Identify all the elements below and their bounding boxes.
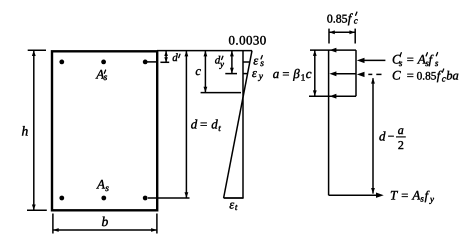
svg-text:A: A xyxy=(96,177,105,192)
stress figure left vertical line xyxy=(328,50,330,195)
svg-text:d: d xyxy=(379,129,386,144)
rebar dots bottom row xyxy=(59,196,147,201)
force arrow C's xyxy=(357,58,386,63)
label T = As fy xyxy=(390,187,434,204)
dimension h xyxy=(27,50,47,210)
svg-text:c: c xyxy=(195,64,201,78)
label eps_y xyxy=(252,66,264,82)
svg-text:0.85: 0.85 xyxy=(327,12,348,26)
svg-text:t: t xyxy=(218,123,221,133)
label a = beta1c xyxy=(273,66,312,84)
beam outline xyxy=(52,51,157,210)
svg-text:=: = xyxy=(407,69,414,83)
label 0.85f'c xyxy=(327,11,358,26)
strain tick eps's level xyxy=(243,61,250,63)
dimension d'y xyxy=(225,51,237,74)
stress block width dimension 0.85fc xyxy=(329,29,355,44)
label d' xyxy=(172,52,180,64)
svg-text:d: d xyxy=(191,116,198,131)
svg-text:A: A xyxy=(411,187,420,202)
svg-text:s: s xyxy=(105,184,109,194)
strain bottom tick xyxy=(224,197,244,199)
stress block middle arrow xyxy=(329,71,356,76)
label C = 0.85f'c ba xyxy=(392,67,459,83)
svg-text:y: y xyxy=(429,194,434,204)
top reference line to strain diagram xyxy=(157,50,252,52)
svg-text:c: c xyxy=(442,74,446,84)
svg-text:ε: ε xyxy=(252,66,257,80)
dimension c xyxy=(201,51,241,93)
svg-text:f: f xyxy=(425,188,430,202)
svg-text:=: = xyxy=(401,189,408,203)
dimension d' xyxy=(160,51,169,63)
dimension b xyxy=(53,214,157,234)
svg-text:t: t xyxy=(235,202,238,212)
strain diagram slanted line xyxy=(224,51,252,198)
svg-text:y: y xyxy=(258,72,264,82)
label A's xyxy=(95,67,107,84)
label eps's xyxy=(253,53,264,69)
svg-text:f: f xyxy=(429,53,434,67)
label d = dt xyxy=(191,116,222,133)
force arrow T xyxy=(329,193,384,198)
strain tick eps_y level xyxy=(243,73,248,75)
svg-text:c: c xyxy=(354,15,358,25)
label d - a/2 xyxy=(379,123,406,152)
force arrow C dashed xyxy=(357,72,382,77)
svg-text:h: h xyxy=(22,124,29,139)
dimension d = dt xyxy=(148,51,190,198)
svg-text:β: β xyxy=(292,66,300,81)
svg-text:c: c xyxy=(306,66,312,81)
svg-text:d: d xyxy=(211,116,218,131)
svg-text:b: b xyxy=(102,214,109,229)
svg-text:0.85: 0.85 xyxy=(417,70,437,82)
stress block bottom edge with arrow xyxy=(309,94,356,99)
svg-text:=: = xyxy=(200,116,207,131)
svg-text:a: a xyxy=(398,123,404,137)
svg-text:0.0030: 0.0030 xyxy=(229,34,267,48)
label eps_t xyxy=(229,197,238,212)
svg-text:s: s xyxy=(104,73,108,83)
label As xyxy=(96,177,109,194)
svg-text:d: d xyxy=(172,52,178,64)
dimension a xyxy=(313,50,317,96)
svg-text:2: 2 xyxy=(398,138,404,152)
svg-text:=: = xyxy=(282,67,289,81)
label d'y xyxy=(215,55,224,69)
svg-text:s: s xyxy=(260,59,264,69)
svg-text:ε: ε xyxy=(229,197,234,211)
svg-text:T: T xyxy=(390,187,398,202)
svg-text:s: s xyxy=(399,58,403,68)
rebar dots top row xyxy=(59,60,147,65)
svg-text:ba: ba xyxy=(446,68,459,82)
strain diagram vertical line xyxy=(242,51,244,198)
svg-text:a: a xyxy=(273,66,280,81)
stress block top edge with arrow xyxy=(310,48,356,53)
svg-text:−: − xyxy=(388,131,395,143)
dimension d-a/2 xyxy=(371,78,375,194)
label C's = A's f's xyxy=(392,52,439,68)
svg-text:s: s xyxy=(435,58,439,68)
svg-text:C: C xyxy=(392,67,401,82)
svg-text:=: = xyxy=(407,53,414,67)
svg-text:y: y xyxy=(219,59,224,69)
top steel level line to edge xyxy=(148,61,157,63)
stress block right edge xyxy=(355,50,357,96)
